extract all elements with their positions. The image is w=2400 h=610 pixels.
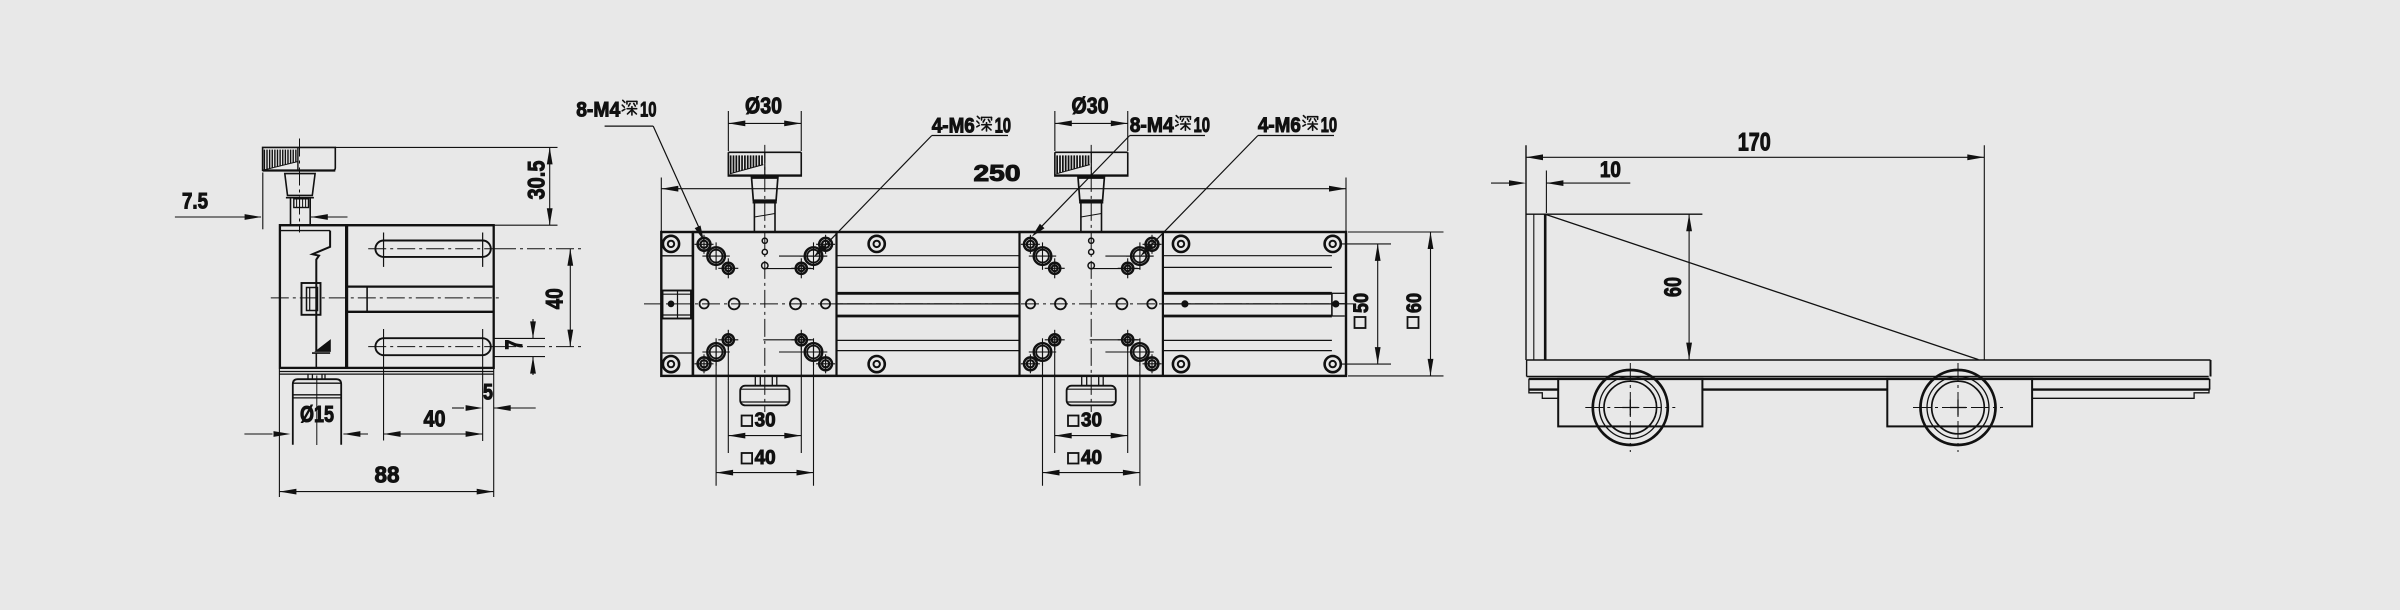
base plate bottom [1527, 376, 2209, 378]
svg-text:40: 40 [755, 447, 776, 469]
svg-text:250: 250 [974, 160, 1021, 186]
knob center cross [1585, 407, 1675, 409]
clamp screw detail on left block [302, 283, 321, 315]
upright plate right edge thick [1544, 214, 1547, 359]
svg-text:7: 7 [501, 340, 528, 350]
svg-text:60: 60 [1403, 293, 1426, 313]
knob top knurled head [263, 147, 336, 171]
carriage center vertical dash-dot [1090, 145, 1092, 412]
dim 250 line with arrows [661, 188, 1346, 190]
rail groove lines x 836.5-1019.5 [837, 255, 1020, 257]
bottom knob body [293, 379, 341, 445]
dim square-40 line with arrows [716, 472, 813, 474]
left end staircase [1529, 379, 1558, 398]
body top edge thick [279, 224, 494, 226]
svg-text:30.5: 30.5 [523, 161, 550, 200]
break triangle flag lower [316, 341, 330, 352]
body top edge extension right [494, 224, 558, 226]
dim 88 line with arrows [279, 491, 493, 493]
svg-text:8-M4: 8-M4 [1130, 113, 1174, 137]
dim Ø30 extension lines [1054, 111, 1056, 151]
svg-text:40: 40 [542, 288, 569, 309]
dim square-40 label [1068, 453, 1079, 464]
knob center cross [1913, 407, 2003, 409]
dim 50 extension lines right [1341, 243, 1391, 245]
rail screws between carriages and at right end [869, 236, 885, 252]
dim 170 right extension line [1983, 145, 1985, 359]
knob block 1 [1558, 379, 1702, 427]
knob bushing trapezoid [1078, 176, 1104, 179]
dim Ø15 arrows [244, 433, 272, 435]
body bottom thin plate lines [279, 371, 493, 373]
upper slot center dash-dot [368, 248, 498, 250]
dim square-40 label [742, 453, 753, 464]
right end band vertical edge [2209, 379, 2211, 390]
upright plate left edge [1525, 145, 1527, 360]
svg-text:40: 40 [424, 406, 446, 432]
dim 7 arrows [532, 319, 534, 338]
left tab groove lines [661, 255, 692, 257]
leader line 3 to M4 screw of carriage 2 [1130, 135, 1205, 137]
svg-text:88: 88 [375, 462, 400, 488]
plate top edge and extension for 60 dim [1526, 213, 1702, 215]
rail groove lines x 1162.9-1331.9 [1163, 255, 1332, 257]
knob circles at x=1630.3 [1593, 370, 1668, 445]
dim square-40 line with arrows [1043, 472, 1140, 474]
knurl hatch lines [263, 150, 265, 171]
center line of knob axis [299, 139, 301, 233]
svg-text:7.5: 7.5 [182, 189, 208, 214]
body outline of stage side view [280, 225, 494, 368]
dim square-30 line with arrows [728, 435, 801, 437]
lead screw end dots [1182, 301, 1188, 307]
bottom knob body rounded [1067, 386, 1116, 406]
dim 60 extension lines right [1348, 231, 1444, 233]
break zigzag line upper [313, 231, 331, 351]
dim square-50 rotated label [1355, 317, 1366, 328]
dim Ø30 line with arrows [1055, 122, 1128, 124]
carriage center vertical dash-dot [764, 145, 766, 412]
bottom knob (lower axis) stems [754, 376, 756, 386]
leader line 4 to M6 screw of carriage 2 [1258, 135, 1334, 137]
upright plate inner line [1533, 214, 1535, 360]
dim 7.5 arrows and lines [175, 216, 261, 218]
svg-text:10: 10 [1321, 113, 1338, 137]
leader line 2 to M6 screw [932, 135, 1008, 137]
svg-text:10: 10 [640, 98, 657, 122]
base plate top [1527, 359, 2211, 361]
lower slot rounded [375, 338, 490, 355]
rail under-plate thick line full width [1529, 378, 2210, 380]
dim 10 right extension line [1545, 171, 1547, 214]
svg-text:Ø15: Ø15 [300, 401, 334, 427]
horizontal center line of body [271, 297, 502, 299]
svg-text:30: 30 [1081, 409, 1102, 431]
step line under top-left surface [280, 230, 330, 232]
left body edge extension down [278, 369, 280, 497]
knurled lock collar [294, 199, 309, 208]
svg-text:170: 170 [1738, 129, 1771, 157]
lead screw channel thick edges [1163, 292, 1332, 295]
bushing trapezoid under knob [285, 174, 315, 196]
central screw channel band [347, 285, 494, 287]
slot top bottom extension right [494, 337, 545, 339]
corner screw clusters [1024, 238, 1037, 251]
left tab screws [663, 236, 679, 252]
dim Ø30 line with arrows [728, 122, 801, 124]
knob block 2 [1887, 379, 2032, 427]
svg-text:Ø30: Ø30 [745, 93, 782, 119]
main horizontal center line [644, 303, 1356, 305]
svg-text:4-M6: 4-M6 [932, 114, 975, 138]
knob head top-view at x=1091.3 [1055, 152, 1128, 176]
right body edge extension down [493, 369, 495, 497]
svg-text:30: 30 [755, 409, 776, 431]
upper slot end ticks [383, 233, 385, 267]
svg-text:60: 60 [1660, 277, 1687, 297]
lead screw right end cap [1331, 293, 1333, 316]
lower slot center dash-dot [368, 346, 498, 348]
extension lines for square dims [715, 342, 717, 486]
dim Ø30 extension lines [727, 111, 729, 151]
left tab clamp pin dot [668, 301, 674, 307]
dim square-30 line with arrows [1055, 435, 1128, 437]
upper slot rounded [375, 241, 490, 257]
svg-text:40: 40 [1081, 447, 1102, 469]
diagonal stroke line [1545, 214, 1978, 359]
carriage square at x=693.1 [693, 232, 836, 376]
center row holes [1026, 299, 1035, 308]
base plate left edge [1526, 360, 1528, 377]
dim 40 vertical line with arrows [569, 249, 571, 347]
shaft to body [290, 198, 292, 226]
dim 170 line with arrows [1526, 156, 1984, 158]
dim 40 bottom line with arrows [384, 433, 483, 435]
knob top extension line to 30.5 dim [335, 146, 557, 148]
slot center extension lines right [498, 248, 582, 250]
lead screw channel thick edges [837, 292, 1020, 295]
bottom knob body rounded [740, 386, 789, 406]
extension lines for square dims [1042, 342, 1044, 486]
svg-text:10: 10 [1600, 157, 1621, 182]
top center hole column [762, 238, 767, 243]
bottom knob (lower axis) stems [1081, 376, 1083, 386]
dim square-60 rotated label [1408, 317, 1419, 328]
center row holes [700, 299, 709, 308]
bottom knob stems [307, 374, 309, 379]
knob bushing trapezoid [752, 176, 778, 179]
left tab clamp box [663, 291, 692, 319]
thick divider between left block and right block [345, 225, 348, 367]
carriage square at x=1019.5 [1020, 232, 1163, 376]
dim 60 line with arrows right view [1688, 214, 1690, 359]
knob shaft [1080, 200, 1082, 231]
svg-text:4-M6: 4-M6 [1258, 113, 1301, 137]
svg-text:10: 10 [1193, 113, 1210, 137]
svg-text:Ø30: Ø30 [1072, 93, 1109, 119]
dim 60 line with arrows [1430, 232, 1432, 376]
dim 250 extension lines up [660, 178, 662, 233]
svg-text:10: 10 [995, 114, 1012, 138]
knob shaft [753, 200, 755, 231]
leader line 1 to M4 screw [605, 125, 654, 127]
dim 10 arrows outside [1491, 182, 1510, 184]
corner screw clusters [698, 238, 711, 251]
right end staircase [2032, 390, 2209, 399]
svg-text:5: 5 [483, 380, 493, 405]
top center hole column [1089, 238, 1094, 243]
dim 5 arrows [452, 407, 464, 409]
dim 30.5 line with arrows [549, 147, 551, 225]
dim square-30 label [1068, 416, 1079, 427]
bottom knob center line [316, 376, 318, 446]
dim square-30 label [742, 416, 753, 427]
knob circles at x=1958.0 [1921, 370, 1996, 445]
dim 50 line with arrows [1377, 244, 1379, 364]
knob head top-view at x=764.8 [728, 152, 801, 176]
svg-text:50: 50 [1350, 293, 1373, 313]
lower slot end ticks and extension lines [383, 329, 385, 441]
assembly outer rectangle [661, 232, 1346, 376]
left tab right boundary [692, 232, 694, 376]
thick lower rail line segments [1529, 388, 1559, 390]
svg-text:8-M4: 8-M4 [576, 98, 620, 122]
base plate right edge [2210, 360, 2212, 377]
